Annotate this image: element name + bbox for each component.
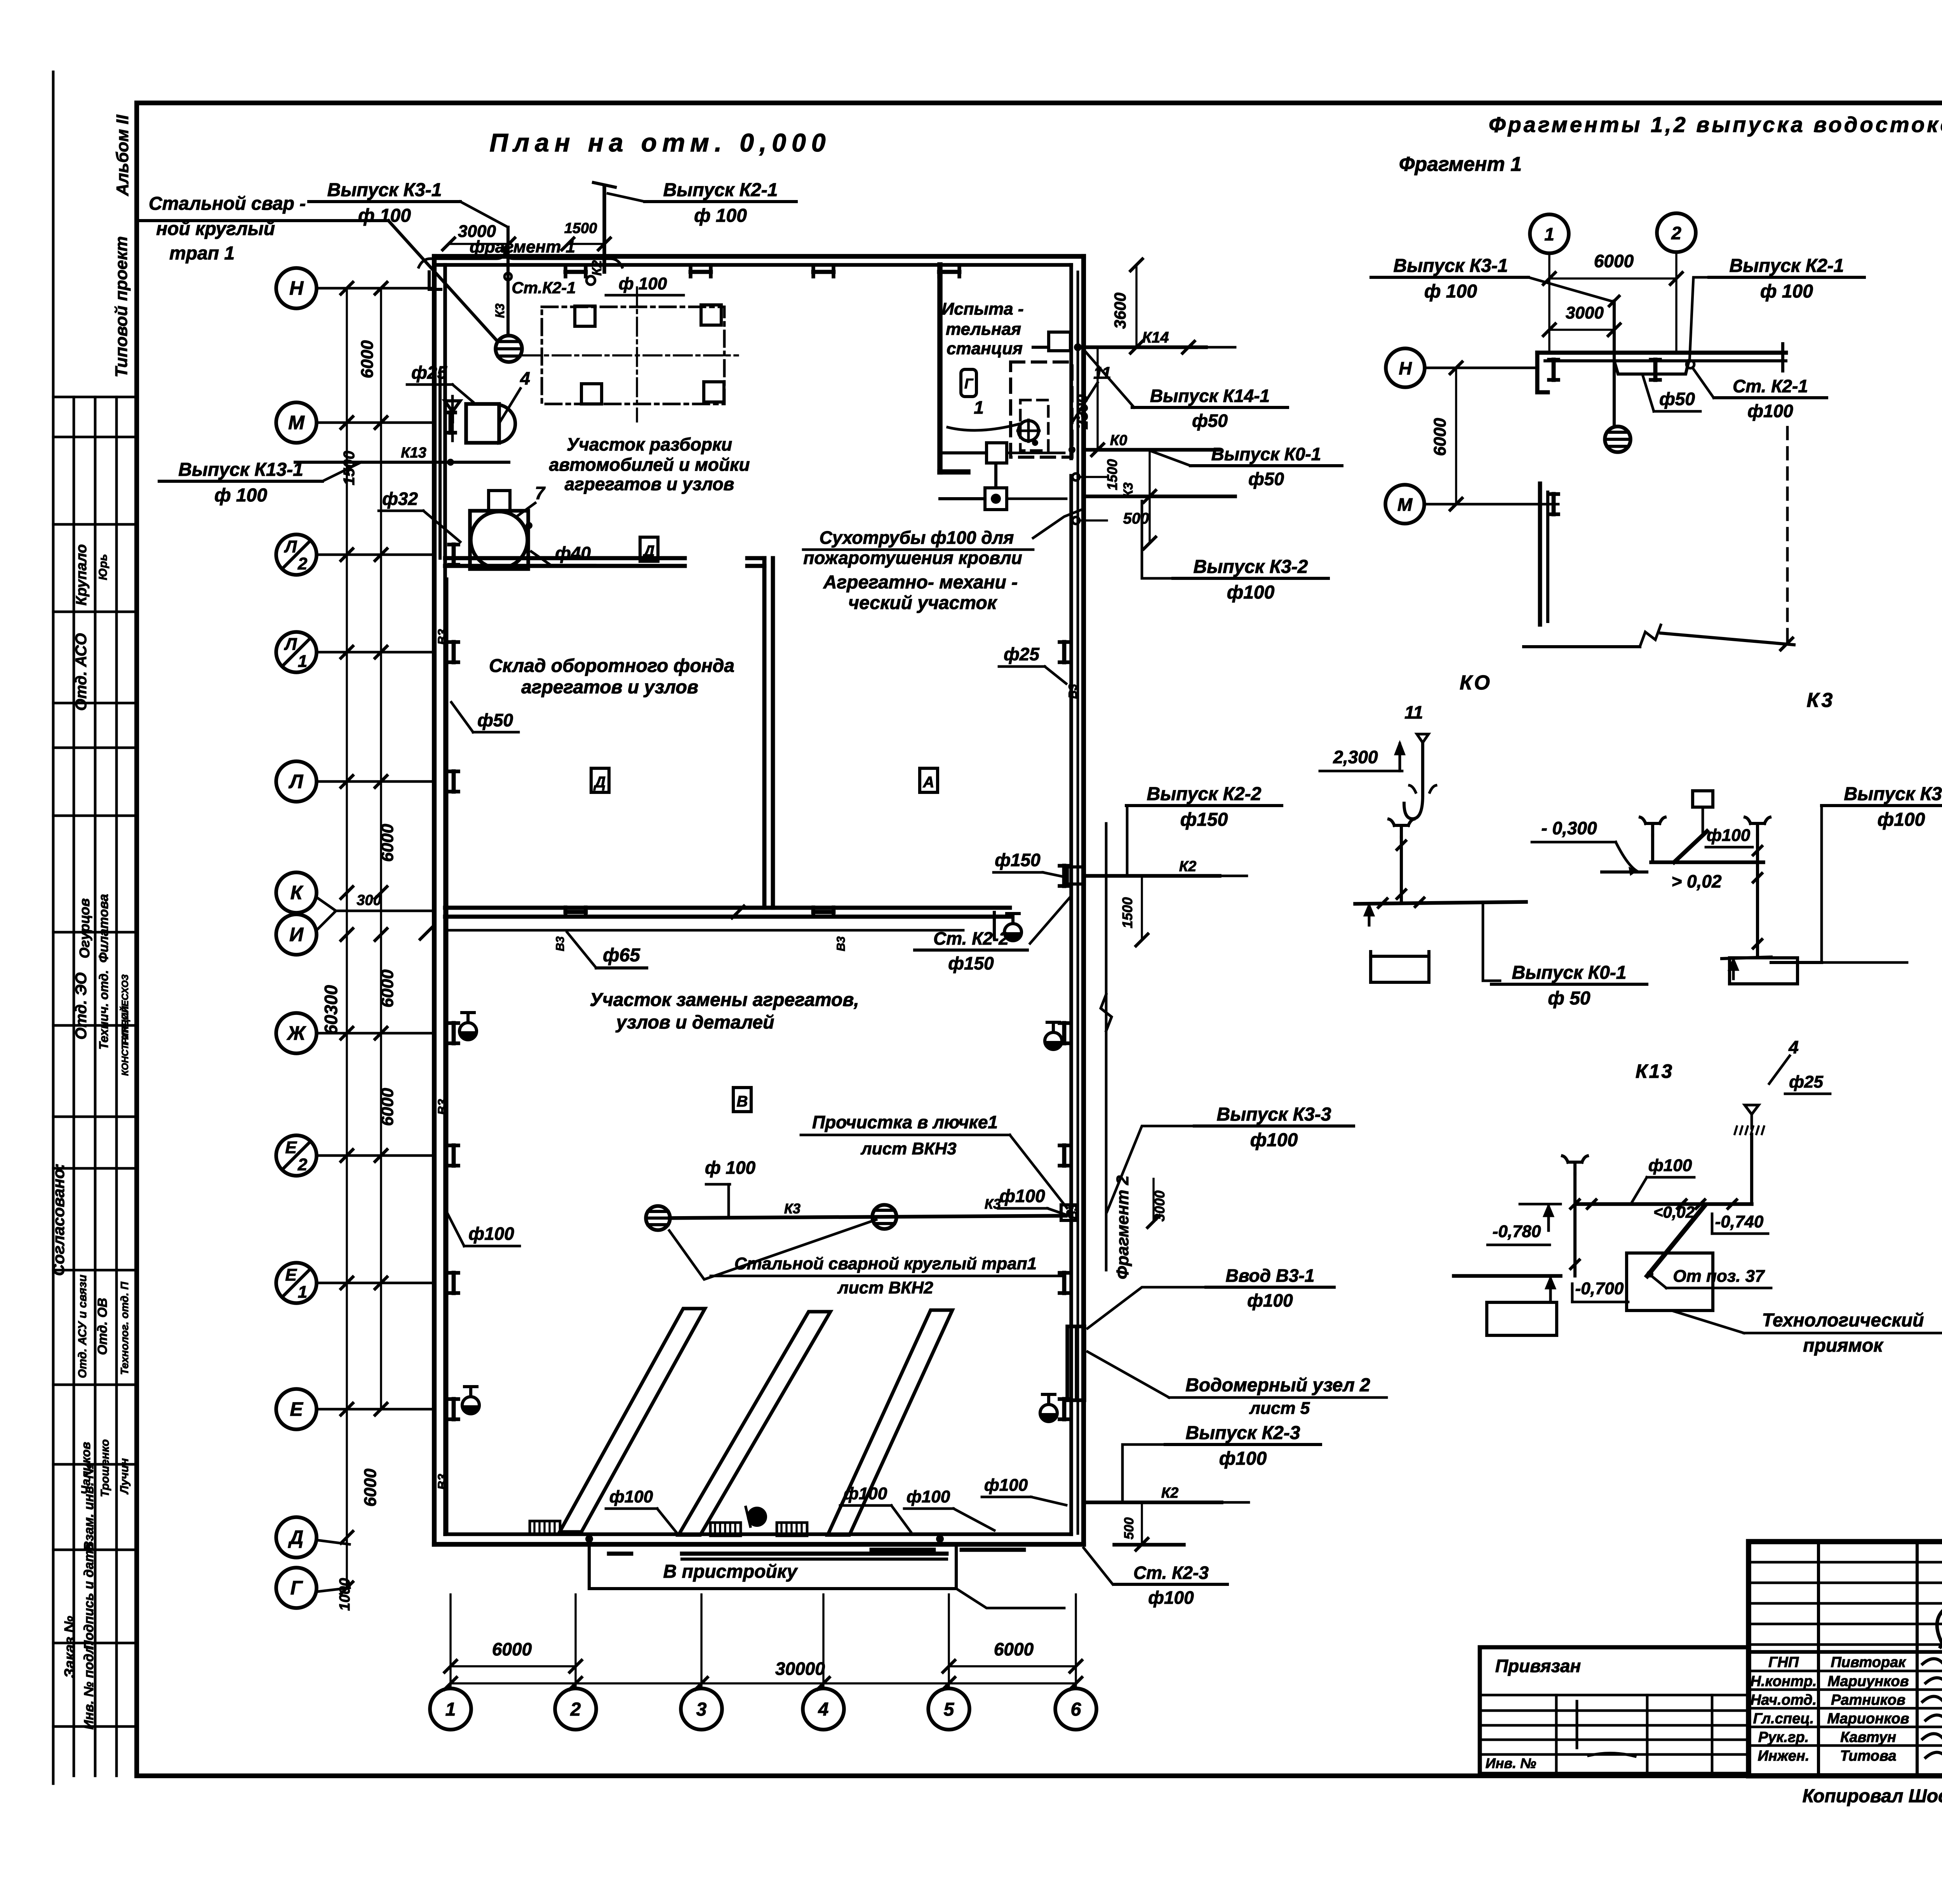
dimension 6000 (cols 5-6)	[949, 1665, 1076, 1667]
svg-text:Выпуск К0-1: Выпуск К0-1	[1211, 444, 1321, 464]
dimension 3600	[1135, 265, 1137, 347]
svg-text:ческий участок: ческий участок	[848, 593, 998, 613]
К3 floor line	[1651, 860, 1763, 864]
bottom-right wall dashes	[872, 1548, 934, 1552]
signature table header line	[1749, 1650, 1942, 1654]
К3 lower ground	[1722, 957, 1771, 959]
К3 flush tank	[1693, 791, 1713, 807]
svg-text:ф 100: ф 100	[214, 485, 267, 506]
svg-text:Выпуск К3-1: Выпуск К3-1	[1394, 256, 1508, 276]
К2 line right	[1084, 874, 1220, 878]
pump unit 4	[466, 404, 499, 443]
svg-text:Выпуск К2-3: Выпуск К2-3	[1186, 1423, 1300, 1443]
svg-text:КОНСТРУКЦИЙ: КОНСТРУКЦИЙ	[119, 1006, 131, 1076]
svg-text:трап 1: трап 1	[169, 243, 235, 264]
svg-text:И: И	[289, 924, 304, 945]
dark dots on bottom wall	[585, 1535, 593, 1543]
svg-text:1000: 1000	[337, 1578, 353, 1611]
svg-text:-0,780: -0,780	[1493, 1222, 1541, 1241]
title block outer rect	[1749, 1542, 1942, 1776]
svg-text:B3: B3	[435, 629, 449, 645]
axis circle Л/2	[276, 534, 317, 575]
svg-text:Рук.гр.: Рук.гр.	[1758, 1729, 1809, 1746]
svg-text:Выпуск К2-1: Выпуск К2-1	[1730, 256, 1844, 276]
svg-text:пожаротушения кровли: пожаротушения кровли	[803, 548, 1022, 568]
К3 main line	[670, 1216, 1066, 1218]
svg-text:К3: К3	[784, 1201, 800, 1217]
svg-text:ф100: ф100	[1648, 1156, 1692, 1175]
svg-text:Титова: Титова	[1840, 1748, 1896, 1764]
svg-text:Участок разборки: Участок разборки	[567, 434, 732, 454]
crosshair circle	[1018, 421, 1039, 441]
svg-text:План на отм. 0,000: План на отм. 0,000	[489, 128, 831, 157]
riser К3-1	[506, 227, 510, 335]
column circle 6	[1055, 1688, 1096, 1730]
svg-text:ф40: ф40	[555, 543, 591, 563]
pipes to wall from test equipment	[1007, 452, 1064, 454]
valve dark on right wall	[1045, 1041, 1062, 1049]
svg-text:Технологический: Технологический	[1762, 1310, 1924, 1331]
washing equipment squares	[575, 306, 595, 326]
svg-text:лист ВКН3: лист ВКН3	[860, 1139, 956, 1158]
К0 line	[1084, 448, 1220, 452]
svg-text:Привязан: Привязан	[1495, 1656, 1581, 1676]
К13 left vent	[1573, 1162, 1577, 1174]
svg-text:6000: 6000	[378, 824, 397, 862]
svg-text:лист 5: лист 5	[1249, 1399, 1310, 1418]
fragment1 lower wall stub	[1538, 484, 1542, 625]
svg-text:Г: Г	[291, 1577, 303, 1599]
svg-text:3000: 3000	[1152, 1190, 1168, 1222]
fragment1 dashed выпуск pipe	[1786, 427, 1789, 643]
room label Д box (left)	[640, 537, 658, 561]
fragment1 axis Н circle	[1386, 348, 1425, 387]
svg-text:Заказ №: Заказ №	[62, 1616, 78, 1678]
svg-text:Ввод В3-1: Ввод В3-1	[1226, 1265, 1315, 1286]
КО выпуск line down	[1483, 902, 1500, 981]
svg-text:3: 3	[696, 1699, 707, 1720]
svg-text:ф 100: ф 100	[619, 274, 667, 293]
КО pit	[1371, 952, 1429, 982]
Г symbol box	[961, 369, 976, 397]
svg-text:ф100: ф100	[1747, 401, 1793, 421]
svg-text:Выпуск К13-1: Выпуск К13-1	[178, 459, 303, 480]
svg-text:- 0,300: - 0,300	[1541, 818, 1597, 838]
КО riser with hook	[1421, 743, 1424, 795]
svg-text:Выпуск К0-1: Выпуск К0-1	[1512, 962, 1627, 983]
svg-text:Выпуск К2-1: Выпуск К2-1	[663, 180, 778, 200]
svg-text:Нач.отд.: Нач.отд.	[1751, 1692, 1817, 1708]
svg-text:ф100: ф100	[1247, 1290, 1293, 1311]
svg-text:Выпуск К3-2: Выпуск К3-2	[1194, 557, 1308, 577]
svg-text:ф100: ф100	[1148, 1587, 1194, 1608]
dimension 500 bottom	[1141, 1502, 1143, 1544]
svg-text:Ст. К2-1: Ст. К2-1	[1733, 376, 1808, 396]
svg-text:ф 100: ф 100	[694, 205, 747, 226]
dimension ticks on left chains	[341, 282, 353, 294]
axis circle Ж	[276, 1013, 317, 1053]
leader line under трап label	[138, 219, 388, 222]
svg-text:ф 100: ф 100	[705, 1157, 756, 1178]
svg-text:К3: К3	[985, 1196, 1001, 1212]
svg-text:ф25: ф25	[1789, 1072, 1823, 1091]
dark valve on bottom wall	[747, 1507, 767, 1527]
svg-text:К2: К2	[590, 260, 604, 276]
svg-text:Лучин: Лучин	[118, 1458, 131, 1495]
К3 diagonal pipe	[1674, 831, 1707, 862]
svg-text:К: К	[291, 882, 304, 903]
fragment1 riser К3-1	[1613, 301, 1616, 426]
svg-text:Мариунков: Мариунков	[1827, 1673, 1909, 1690]
svg-text:приямок: приямок	[1803, 1335, 1884, 1356]
svg-text:Ст. К2-3: Ст. К2-3	[1133, 1563, 1209, 1583]
svg-text:6000: 6000	[361, 1469, 380, 1507]
svg-text:Е: Е	[290, 1398, 303, 1420]
svg-text:> 0,02: > 0,02	[1671, 871, 1722, 891]
svg-text:60300: 60300	[321, 985, 341, 1035]
svg-text:Согласовано:: Согласовано:	[49, 1163, 68, 1276]
svg-text:1: 1	[298, 1283, 307, 1302]
svg-text:Л: Л	[289, 771, 304, 792]
dash-dot center lines	[522, 354, 738, 356]
svg-text:4: 4	[818, 1699, 829, 1720]
square on wall К2-2	[1067, 867, 1084, 884]
svg-text:6000: 6000	[358, 340, 377, 378]
svg-text:ф100: ф100	[1878, 809, 1925, 830]
svg-text:Н: Н	[1399, 358, 1412, 378]
valve on partition К at wall	[420, 925, 434, 939]
svg-text:Стальной свар -: Стальной свар -	[149, 193, 306, 214]
comb grate 2	[710, 1523, 741, 1536]
small square on wall K14	[1049, 332, 1070, 351]
inner dashed rect	[1020, 400, 1048, 451]
К3 funnel left	[1651, 823, 1654, 835]
fragment1 pilasters	[1552, 360, 1556, 380]
dimension 1500 (К2-2)	[1141, 876, 1143, 940]
leaders to трап label	[669, 1220, 876, 1279]
svg-text:Трошенко: Трошенко	[99, 1439, 111, 1497]
svg-text:А: А	[923, 774, 934, 791]
svg-text:ф 50: ф 50	[1548, 988, 1590, 1009]
svg-text:6000: 6000	[378, 969, 397, 1008]
svg-text:автомобилей и мойки: автомобилей и мойки	[549, 454, 750, 475]
К3 pit	[1728, 958, 1731, 984]
Фрагмент 2 boundary line	[1105, 823, 1108, 1270]
svg-text:К3: К3	[1807, 689, 1835, 712]
К3 funnel right	[1756, 823, 1759, 835]
pilasters and ticks on К partition	[566, 910, 586, 914]
svg-text:ф100: ф100	[1707, 826, 1751, 845]
svg-text:Фрагменты 1,2 выпуска: Фрагменты 1,2 выпуска водостоков на рель…	[1489, 112, 1942, 137]
К13 riser from funnel	[1750, 1134, 1753, 1204]
svg-text:Выпуск К2-2: Выпуск К2-2	[1147, 784, 1262, 804]
svg-text:11: 11	[1404, 702, 1423, 722]
svg-text:Ст. К2-2: Ст. К2-2	[933, 928, 1009, 949]
left wall pilasters	[452, 545, 456, 565]
column circle 1	[430, 1688, 471, 1730]
test station lower equipment	[987, 443, 1007, 463]
column circle 4	[803, 1688, 844, 1730]
svg-text:К13: К13	[401, 445, 426, 461]
water meter unit on wall	[1067, 1326, 1084, 1400]
svg-text:В: В	[737, 1093, 748, 1110]
svg-text:3000: 3000	[1566, 303, 1604, 322]
svg-text:6000: 6000	[1594, 251, 1634, 271]
building bottom wall	[434, 1542, 1084, 1547]
svg-text:агрегатов и узлов: агрегатов и узлов	[565, 474, 734, 494]
svg-text:2: 2	[1671, 223, 1681, 243]
column circle 3	[681, 1688, 722, 1730]
КО ground line	[1355, 902, 1526, 904]
К14 pipe line	[1084, 345, 1206, 349]
svg-text:500: 500	[1122, 1518, 1136, 1540]
fragment1 ст.К2-1 pilaster	[1653, 360, 1658, 380]
svg-text:2: 2	[570, 1699, 581, 1720]
svg-text:Сухотрубы ф100 для: Сухотрубы ф100 для	[820, 527, 1014, 548]
svg-text:Г: Г	[964, 376, 974, 392]
svg-text:Огурцов: Огурцов	[77, 898, 92, 959]
svg-text:<0,02: <0,02	[1653, 1203, 1695, 1221]
К2-1 funnel at top	[602, 186, 606, 272]
svg-text:Агрегатно- механи -: Агрегатно- механи -	[823, 572, 1018, 593]
пристройка channel below bottom wall	[589, 1544, 956, 1589]
svg-text:6000: 6000	[492, 1639, 532, 1659]
svg-text:М: М	[1397, 494, 1413, 515]
svg-text:Испыта -: Испыта -	[941, 299, 1023, 318]
svg-text:Ж: Ж	[286, 1022, 306, 1044]
dimension 500 (right)	[1148, 496, 1150, 543]
svg-text:1: 1	[298, 652, 307, 671]
svg-text:Прочистка в лючке1: Прочистка в лючке1	[812, 1112, 998, 1132]
trap on К3-1 riser	[496, 336, 522, 362]
svg-text:М: М	[288, 412, 305, 433]
svg-text:ф100: ф100	[844, 1484, 887, 1503]
svg-text:B3: B3	[554, 936, 567, 952]
svg-text:К13: К13	[1636, 1060, 1674, 1082]
svg-text:станция: станция	[947, 339, 1023, 358]
axis circle Е/2	[276, 1135, 317, 1176]
К13 horizontal pipe	[1577, 1202, 1752, 1206]
axis circle Е	[276, 1389, 317, 1429]
К3 riser down	[1756, 862, 1759, 956]
svg-text:лист ВКН2: лист ВКН2	[837, 1278, 933, 1297]
svg-text:30000: 30000	[775, 1659, 825, 1679]
svg-text:1: 1	[974, 397, 984, 418]
fragment1 wall	[1537, 351, 1786, 355]
svg-text:Юрь: Юрь	[97, 554, 110, 580]
svg-text:ф150: ф150	[1180, 809, 1228, 830]
svg-text:5: 5	[944, 1699, 955, 1720]
svg-text:Подпись и дата: Подпись и дата	[82, 1543, 96, 1650]
svg-text:Крупало: Крупало	[73, 544, 90, 606]
B3 pipe below К partition	[447, 929, 963, 932]
svg-text:-0,700: -0,700	[1575, 1279, 1624, 1298]
svg-text:Ратников: Ратников	[1831, 1692, 1905, 1708]
привязан table	[1480, 1647, 1749, 1774]
svg-text:Альбом II: Альбом II	[113, 115, 132, 196]
signature squiggles	[1923, 1659, 1942, 1667]
svg-text:ф100: ф100	[1250, 1130, 1298, 1150]
svg-text:Гл.спец.: Гл.спец.	[1753, 1711, 1814, 1727]
ramp 3	[828, 1310, 952, 1535]
svg-text:ф150: ф150	[995, 850, 1041, 870]
svg-text:Отд. АСУ и связи: Отд. АСУ и связи	[76, 1275, 89, 1378]
К13 ground line	[1454, 1274, 1561, 1278]
svg-text:В пристройку: В пристройку	[663, 1561, 798, 1582]
svg-text:Кавтун: Кавтун	[1840, 1729, 1896, 1746]
svg-text:2,300: 2,300	[1333, 747, 1378, 767]
fragment1 axis circle 1	[1530, 214, 1569, 253]
right wall pilasters	[1062, 642, 1067, 662]
svg-text:фрагмент 1: фрагмент 1	[470, 237, 575, 256]
svg-text:Д: Д	[642, 543, 655, 560]
signature table lower rows	[1749, 1670, 1942, 1673]
svg-text:3600: 3600	[1111, 292, 1129, 329]
fragment1 trap	[1605, 426, 1631, 452]
svg-text:К3: К3	[1121, 482, 1136, 498]
fragment1 dimension 3000	[1549, 329, 1614, 331]
svg-text:1500: 1500	[1119, 897, 1135, 928]
svg-text:1500: 1500	[564, 220, 597, 237]
svg-text:1: 1	[445, 1699, 456, 1720]
svg-text:Выпуск К14-1: Выпуск К14-1	[1150, 386, 1270, 406]
comb grate 1	[530, 1521, 560, 1534]
svg-text:Л: Л	[284, 537, 297, 556]
svg-text:B3: B3	[835, 936, 847, 952]
svg-text:300: 300	[357, 892, 381, 908]
partition wall at axis К	[445, 906, 1010, 910]
svg-text:ф50: ф50	[1659, 389, 1695, 409]
leader at право channel	[956, 1589, 1064, 1608]
svg-text:B3: B3	[435, 1474, 449, 1490]
К13 hatch mark	[1735, 1126, 1737, 1134]
small circle symbols on wall	[1072, 473, 1079, 480]
test station partition wall	[937, 265, 943, 472]
bottom dimension line 30000	[451, 1682, 1076, 1684]
svg-text:6000: 6000	[378, 1088, 397, 1126]
svg-text:ф65: ф65	[603, 945, 640, 966]
svg-text:500: 500	[1123, 510, 1149, 527]
building right wall	[1081, 256, 1086, 1544]
svg-text:К14: К14	[1142, 329, 1169, 346]
svg-text:ф100: ф100	[999, 1186, 1045, 1206]
svg-text:Е: Е	[285, 1138, 297, 1157]
svg-text:Выпуск К3-3: Выпуск К3-3	[1217, 1104, 1331, 1125]
dimension 1500 (right)	[1148, 450, 1150, 496]
К13 funnel	[1745, 1105, 1759, 1114]
building top wall	[434, 254, 1084, 259]
svg-text:Марионков: Марионков	[1827, 1711, 1909, 1727]
чистка square on wall	[1061, 1205, 1077, 1220]
signature table columns	[1817, 1542, 1820, 1776]
svg-text:ф 100: ф 100	[1760, 281, 1813, 302]
svg-text:Филатова: Филатова	[96, 894, 111, 963]
К3 ground segment	[1602, 870, 1647, 874]
valve on left wall at Е	[462, 1405, 479, 1414]
column circle 2	[555, 1688, 596, 1730]
svg-text:ф100: ф100	[984, 1476, 1028, 1495]
dark valve right wall bottom	[1040, 1413, 1057, 1422]
svg-text:Д: Д	[288, 1526, 303, 1548]
svg-text:Д: Д	[593, 774, 606, 791]
fragment1 axis М circle	[1385, 485, 1424, 524]
svg-text:Фрагмент 1: Фрагмент 1	[1399, 153, 1522, 176]
room label А box	[920, 768, 938, 792]
fragment1 ф50 pipe	[1614, 361, 1689, 374]
axis leader lines	[317, 287, 434, 290]
svg-text:К2: К2	[1179, 858, 1197, 875]
axis circle Н	[276, 268, 317, 308]
svg-text:Инв. №: Инв. №	[1486, 1755, 1537, 1771]
svg-text:Пивторак: Пивторак	[1831, 1654, 1906, 1671]
svg-text:Участок замены агрегатов,: Участок замены агрегатов,	[590, 990, 859, 1010]
svg-text:B3: B3	[435, 1099, 449, 1115]
К2 line bottom right	[1084, 1500, 1222, 1504]
svg-text:2: 2	[298, 1155, 308, 1174]
bottom column stub lines	[449, 1594, 451, 1686]
svg-text:ф50: ф50	[1192, 411, 1228, 431]
axis circle Л	[276, 761, 317, 802]
svg-text:ф100: ф100	[468, 1224, 514, 1244]
Сухотрубы leader	[1033, 509, 1084, 538]
dimension 2300	[1096, 347, 1098, 450]
К13 diagonal pipe to приямок	[1647, 1206, 1704, 1276]
svg-text:К2: К2	[1161, 1485, 1179, 1501]
left vertical dimension line (total 60300)	[346, 288, 348, 1588]
svg-text:7: 7	[535, 483, 546, 503]
trap 2 on К3	[872, 1205, 896, 1229]
svg-text:узлов и деталей: узлов и деталей	[616, 1012, 774, 1033]
ramp 1	[560, 1309, 705, 1532]
svg-text:ГНП: ГНП	[1768, 1654, 1799, 1671]
dashes right of building bottom	[1114, 1543, 1184, 1547]
washing equipment dash-dot outline	[542, 307, 724, 404]
trap 1 on К3	[646, 1206, 670, 1230]
svg-text:Технолог. отд. П: Технолог. отд. П	[118, 1281, 131, 1375]
svg-text:6000: 6000	[1430, 418, 1450, 456]
svg-text:Выпуск К3-2: Выпуск К3-2	[1844, 784, 1942, 804]
svg-text:Технич. отд.: Технич. отд.	[97, 970, 111, 1049]
dimension 3000 fragment2	[1152, 1179, 1154, 1222]
left vertical dimension line (6000 chain)	[380, 288, 382, 1409]
fragment1 dimension 6000	[1549, 277, 1676, 279]
svg-text:Копировал Шост: Копировал Шост	[1803, 1786, 1942, 1807]
svg-text:ф150: ф150	[948, 953, 994, 973]
B3 pipe along right wall	[1077, 272, 1079, 1533]
pipe and valve near М	[439, 373, 442, 558]
К3 выпуск leader down	[1822, 806, 1907, 962]
dashed equipment rect	[1011, 362, 1072, 457]
column circle 5	[928, 1688, 969, 1730]
svg-text:Склад оборотного фонда: Склад оборотного фонда	[489, 656, 734, 676]
svg-text:Стальной сварной круглый трап1: Стальной сварной круглый трап1	[734, 1254, 1037, 1273]
КО vent pipe	[1400, 825, 1403, 837]
ramp 2	[679, 1312, 830, 1535]
svg-text:Типовой проект: Типовой проект	[112, 236, 131, 378]
svg-text:Инв. № подл.: Инв. № подл.	[82, 1642, 96, 1730]
svg-text:Инжен.: Инжен.	[1758, 1748, 1810, 1764]
svg-text:1500: 1500	[1104, 459, 1120, 490]
axis circle Е/1	[276, 1263, 317, 1303]
svg-text:Н.контр.: Н.контр.	[1751, 1673, 1817, 1690]
svg-text:агрегатов и узлов: агрегатов и узлов	[521, 677, 698, 698]
partition wall below разборки area	[445, 556, 685, 560]
svg-text:2: 2	[298, 554, 308, 573]
axis circle К	[276, 872, 317, 913]
tank unit 7 near Л/2	[470, 511, 528, 569]
svg-text:КО: КО	[1460, 672, 1492, 694]
svg-text:Н: Н	[289, 277, 304, 299]
